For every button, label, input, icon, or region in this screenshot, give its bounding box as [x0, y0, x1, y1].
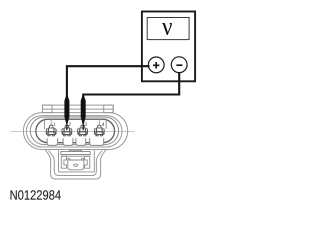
- connector seal retainer inner stadium: [36, 119, 115, 143]
- terminal 3 guide line: [82, 119, 84, 125]
- pin number 4: [102, 123, 104, 126]
- connector middle shell oval: [26, 116, 122, 147]
- top plate right end box: [104, 105, 114, 113]
- voltmeter box U1: [142, 12, 195, 82]
- voltmeter negative jack: [171, 57, 187, 73]
- latch center oval: [74, 164, 78, 166]
- terminal 2 guide line: [66, 119, 68, 125]
- cavity notch 3: [76, 138, 86, 145]
- latch top bar: [61, 152, 90, 155]
- latch cavity left wall: [58, 150, 60, 172]
- latch cavity right wall: [93, 150, 95, 172]
- latch inner flange: [49, 151, 103, 176]
- cavity divider rib left: [44, 119, 46, 130]
- voltmeter V label (Greek nu glyph): [162, 23, 172, 35]
- voltmeter display window: [147, 18, 189, 40]
- terminal 1: [46, 125, 56, 136]
- pin number 2: [69, 123, 71, 126]
- latch mechanism top edge: [61, 155, 90, 157]
- terminal 4 guide line: [98, 119, 100, 125]
- terminal 4: [94, 125, 104, 136]
- centerline (horizontal axis of connector): [10, 130, 135, 132]
- cavity notch 2: [63, 138, 73, 145]
- terminal 1 guide line: [50, 119, 52, 125]
- negative lead wire: [83, 73, 179, 100]
- terminal 3: [78, 125, 88, 136]
- negative probe tip: [81, 97, 86, 131]
- top plate left end box: [43, 105, 53, 113]
- latch cavity bottom: [59, 171, 95, 173]
- latch left bracket: [61, 156, 66, 168]
- cavity notch 4: [90, 138, 104, 145]
- terminal 2: [62, 125, 72, 136]
- latch right bracket: [85, 156, 90, 168]
- latch tongue left hook: [68, 158, 70, 160]
- figure number label: [11, 190, 61, 199]
- voltmeter positive jack: [148, 57, 164, 73]
- cavity notch 1: [47, 138, 58, 145]
- latch tongue right hook: [82, 158, 84, 160]
- latch center tongue: [68, 160, 84, 170]
- connector top plate: [43, 105, 114, 113]
- pin number 3: [84, 123, 86, 126]
- cavity divider rib right: [105, 119, 107, 130]
- positive lead wire: [67, 66, 150, 100]
- positive probe tip: [64, 97, 69, 131]
- pin number 1: [53, 123, 55, 126]
- connector outer shell oval: [23, 113, 127, 150]
- plus sign: [153, 62, 159, 68]
- latch top bar raised tab: [70, 150, 82, 151]
- connector seal retainer outer stadium: [30, 117, 118, 145]
- latch outer flange: [45, 149, 106, 179]
- minus sign: [176, 64, 182, 66]
